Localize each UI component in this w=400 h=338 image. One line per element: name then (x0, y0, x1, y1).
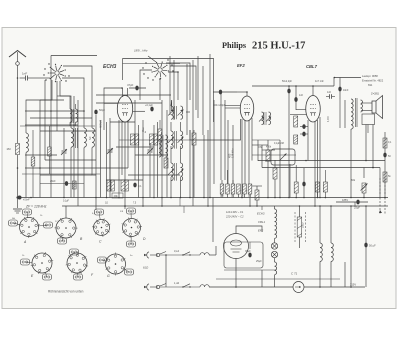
wire ECH3 grid cap to coils (104, 87, 123, 130)
switch blade lower (182, 284, 190, 288)
IF transformer T1 trimmer arrows (168, 110, 184, 116)
IF transformer T2 primary coil (171, 131, 173, 149)
dial lamp dashed leads (379, 198, 385, 216)
field coil (331, 206, 333, 287)
svg-text:30µF: 30µF (245, 250, 251, 253)
svg-text:215 H.U.-17: 215 H.U.-17 (252, 41, 305, 52)
wire feedback horizontals (258, 160, 385, 169)
wire oscillator mesh verticals (170, 56, 203, 135)
wire rectifier block bottom (216, 270, 340, 279)
wire transformer primary return (350, 133, 352, 198)
output transformer core (356, 98, 358, 127)
svg-text:50x2,2pF: 50x2,2pF (282, 80, 293, 83)
filter choke (320, 206, 322, 287)
resistor 0.1M mid left (31, 130, 35, 198)
svg-text:47pF: 47pF (127, 83, 134, 87)
wire upper coil pair links (57, 96, 76, 126)
junction dots buses (209, 197, 211, 199)
svg-text:Osz.: Osz. (142, 127, 145, 132)
phono socket symbol (293, 282, 304, 293)
resistor oscillator damping (164, 158, 168, 168)
switch S2 contact dots (145, 62, 146, 63)
svg-text:25µF: 25µF (354, 206, 360, 210)
resistor bias network R11 (220, 184, 224, 194)
socket C EF2 (92, 209, 110, 244)
tube EF2 envelope (240, 96, 254, 121)
junction dots ground bus extra (118, 197, 120, 199)
output transformer secondary (361, 100, 363, 112)
wire EF2 left feeds (225, 105, 241, 108)
resistor AVC 1M (258, 146, 270, 198)
svg-text:CBL7: CBL7 (306, 64, 318, 69)
junction dots tuning comb (95, 197, 97, 199)
wire EF2 grid link to IF T2 (190, 119, 241, 206)
wire CBL7 anode top (312, 85, 314, 95)
junction dots switch S2 (159, 78, 161, 80)
junction antenna ground (16, 196, 18, 198)
svg-text:1Ω: 1Ω (105, 203, 108, 205)
wire oscillator mesh horizontals (96, 64, 190, 181)
wire socket feeds (66, 206, 125, 218)
svg-text:Z=28Ω: Z=28Ω (371, 92, 379, 96)
IF transformer T1 primary coil (171, 106, 173, 119)
svg-text:1nF: 1nF (299, 94, 304, 97)
capacitor 25nF output (323, 170, 327, 198)
resistor 2500 ohm mains dropper (297, 206, 304, 248)
wire right vertical feeds (319, 206, 366, 288)
svg-text:2500: 2500 (302, 222, 305, 228)
resistor screen feed EF2 (192, 130, 196, 198)
tube ECH3 envelope (117, 96, 132, 123)
capacitor 1nF antenna coupling (20, 72, 35, 81)
resistor bias network R14 (237, 184, 241, 194)
capacitor 47pF oscillator coupling (127, 83, 146, 96)
trimmer capacitor oscillator padder (107, 148, 113, 198)
switch S1 contact dots (45, 79, 46, 80)
svg-text:470k: 470k (266, 147, 272, 149)
heater chain winding (275, 209, 277, 238)
capacitor decoupling blob mid (133, 183, 142, 188)
resistor output load 2.2M (316, 168, 320, 198)
wire detector bus top (252, 85, 334, 87)
wire EF2 column verticals (210, 54, 225, 198)
wire EF2 anode link (237, 91, 247, 93)
svg-text:0,1: 0,1 (138, 184, 142, 188)
svg-text:50 µF: 50 µF (369, 244, 376, 248)
tube CBL7 envelope (306, 96, 321, 123)
resistor 0.1M left block (73, 181, 77, 189)
svg-text:Lautspr. 9658: Lautspr. 9658 (362, 74, 378, 78)
IF transformer T2 core (175, 131, 177, 149)
wire EF2 anode to top (246, 91, 248, 96)
mains switch contact upper (156, 252, 166, 257)
resistor right column 1 (383, 138, 392, 148)
IF transformer T3 trimmer arrows (168, 169, 184, 175)
mains switch contact lower (156, 284, 166, 289)
resistor AVC 2 (273, 168, 277, 198)
tone control box (266, 143, 295, 165)
wire switch S2 contacts to oscillator coils (140, 56, 196, 110)
wire switch S1 lower feeds (26, 78, 84, 128)
wire heater chain tail (275, 206, 277, 287)
resistor cathode bias (121, 180, 128, 191)
coil antenna secondary pair upper (70, 109, 78, 123)
wire antenna lead down to ground bus (17, 77, 19, 197)
labels resistor row second line (222, 190, 247, 192)
resistor bias network R16 (248, 184, 252, 194)
svg-text:185V: 185V (342, 198, 348, 202)
svg-text:25µF: 25µF (256, 260, 262, 263)
svg-text:Ersatzteil Nr. 4822: Ersatzteil Nr. 4822 (362, 79, 384, 83)
IF transformer T2 secondary coil (181, 131, 183, 149)
wire IF transformer links (171, 100, 190, 198)
svg-text:1M: 1M (6, 147, 11, 151)
resistor AVC network (107, 180, 114, 191)
svg-text:691: 691 (368, 83, 373, 87)
barretter dashed outline (295, 212, 306, 242)
wire EF2 pin drops (228, 118, 252, 198)
coil L3 RF (84, 128, 86, 198)
svg-text:ZF = 128 kHz: ZF = 128 kHz (25, 205, 47, 209)
junction dots left block (50, 110, 52, 112)
ground symbol (13, 198, 22, 214)
svg-text:10nF: 10nF (343, 89, 349, 92)
speaker field coil box (357, 114, 375, 133)
svg-text:NC: NC (89, 136, 92, 140)
capacitor 25uF electrolytic blob (354, 200, 360, 210)
wire CBL7 pin drops (308, 117, 320, 206)
resistor padder 4 ohm (144, 130, 157, 145)
switch blade upper (182, 252, 190, 256)
wire switch S1 to RF coils top (51, 56, 97, 129)
resistor bias network R12 (226, 184, 230, 194)
svg-text:220-240V ~ C2: 220-240V ~ C2 (225, 215, 244, 219)
pilot lamp 1 (271, 243, 277, 249)
IF transformer T3 primary coil (171, 163, 173, 181)
rectifier block box (224, 242, 263, 268)
wire HT to output transformer (334, 77, 361, 128)
capacitor 4.5nF ground blob (18, 196, 31, 202)
trimmer capacitor antenna circuit (61, 128, 67, 198)
socket A ECH3 (9, 209, 53, 244)
wire transformer tails (351, 112, 366, 133)
socket D CBL7 (122, 208, 146, 247)
wire rectifier cathode to HT (235, 226, 262, 288)
svg-text:0,1µF 2M: 0,1µF 2M (274, 143, 284, 145)
coil oscillator tapped (159, 132, 168, 157)
detector diode transformer coils (259, 112, 271, 125)
capacitor tone corrector blob (338, 87, 349, 128)
wire ground bus (18, 197, 389, 199)
svg-text:50pF: 50pF (99, 108, 105, 112)
svg-text:110-130V ~ C1: 110-130V ~ C1 (226, 210, 244, 214)
svg-text:50k: 50k (351, 178, 356, 182)
resistor grid leak CBL7 (294, 165, 298, 198)
svg-text:EF2: EF2 (258, 229, 264, 233)
oscillator section box (123, 59, 214, 123)
trimmer capacitor RF (147, 143, 153, 198)
resistor bias network R15 (243, 184, 247, 194)
wire resistor row tails (222, 170, 250, 206)
wire bottom distribution (237, 270, 365, 287)
IF transformer T3 secondary coil (181, 163, 183, 181)
IF transformer T2 trimmer arrows (168, 137, 184, 143)
svg-text:4,5nF: 4,5nF (23, 198, 30, 202)
capacitor 10pF blob EF2 grid (213, 90, 237, 95)
resistor 30k IF decoupling (158, 120, 162, 155)
coil L4 RF (92, 128, 96, 175)
pilot lamp 2 (271, 251, 277, 257)
wire right column verticals (366, 125, 385, 198)
mains dropper coil lower (200, 285, 209, 287)
capacitor 50uF electrolytic blob (364, 243, 376, 248)
IF transformer T3 core (175, 163, 177, 181)
svg-text:0,1A: 0,1A (174, 250, 179, 253)
capacitor right column blob (383, 153, 391, 158)
mains plug upper (144, 252, 149, 258)
rotary band switch S2 (152, 62, 169, 79)
volume potentiometer 50k (351, 178, 368, 193)
mains dropper coil upper (200, 253, 209, 255)
wire mains upper run (150, 246, 216, 256)
svg-text:61Ω: 61Ω (143, 266, 149, 270)
svg-text:1,4A: 1,4A (174, 282, 179, 285)
svg-text:CBL1: CBL1 (258, 220, 265, 224)
wire tuning gang verticals (96, 100, 172, 206)
iron core antenna coils (76, 128, 78, 148)
wire left block extra horizontals (20, 126, 100, 184)
svg-text:+0,1µF: +0,1µF (145, 104, 153, 107)
svg-text:100-140pF: 100-140pF (213, 103, 226, 107)
resistor right column 2 (383, 172, 391, 182)
wire 185V line (336, 198, 368, 202)
capacitor blobs CBL7 input (290, 110, 308, 137)
rotary band switch S1 (48, 64, 66, 82)
output transformer primary (351, 99, 353, 129)
wire left block horizontals (25, 100, 128, 175)
boxed label 49k on ground bus (112, 193, 123, 198)
svg-text:4,7nF: 4,7nF (327, 115, 330, 122)
svg-text:1nF: 1nF (327, 91, 332, 94)
capacitor 50pF blob (94, 108, 105, 114)
capacitor 30uF electrolytic (245, 242, 252, 257)
resistor volume divider (255, 186, 259, 206)
svg-text:ECH3: ECH3 (103, 64, 117, 70)
socket G speaker plug (98, 253, 134, 279)
svg-text:Philips: Philips (222, 41, 246, 50)
socket F pilot (66, 249, 94, 280)
resistor CBL7 bias (294, 135, 298, 144)
coil L1 antenna (26, 104, 28, 198)
wire speaker dashed leads upper (380, 178, 385, 195)
loudspeaker (361, 96, 383, 119)
wire mains risers (180, 198, 213, 243)
wire tone box connections (265, 122, 310, 198)
capacitor 1nF CBL7 anode (326, 91, 335, 99)
socket E AZ1 (21, 252, 54, 280)
mains plug lower (144, 284, 149, 290)
svg-text:EF2: EF2 (237, 63, 245, 68)
IF transformer T1 core (175, 106, 177, 119)
wire left block verticals (40, 66, 78, 206)
wire power area risers (262, 164, 355, 287)
rectifier tube AZ1 (224, 234, 249, 259)
svg-text:4n7 1nF: 4n7 1nF (315, 80, 324, 83)
svg-text:C 71: C 71 (291, 272, 298, 276)
svg-text:29nF: 29nF (50, 180, 56, 183)
wire ECH3 pins down (104, 103, 145, 206)
svg-text:185/...kHz: 185/...kHz (134, 49, 148, 53)
svg-text:1nF: 1nF (22, 72, 27, 76)
svg-text:128 kHz: 128 kHz (231, 148, 235, 158)
capacitor 0.1uF blob ECH3 anode (145, 104, 154, 111)
socket B tuning condenser (55, 218, 84, 244)
wire mains lower run (150, 286, 237, 288)
resistor CBL7 grid stopper (294, 116, 298, 127)
resistor oscillator grid leak 50k (131, 134, 139, 145)
resistor 1M on antenna lead (6, 144, 19, 155)
wire antenna cap to band switch (34, 77, 50, 79)
svg-text:ECH3: ECH3 (257, 212, 265, 216)
antenna (9, 51, 26, 79)
resistor 50k left block (48, 126, 52, 174)
wire mains link vertical (165, 255, 167, 287)
resistor bias network R13 (231, 184, 235, 194)
wire pot connections (363, 168, 365, 198)
wire HT bus (62, 205, 388, 207)
wire AVC verticals (258, 100, 289, 198)
IF transformer T1 secondary coil (181, 106, 183, 119)
svg-text:G: G (107, 274, 110, 278)
coil L2 antenna (71, 128, 73, 198)
wire detector horizontals (252, 140, 296, 186)
svg-text:MG/LG: MG/LG (100, 120, 103, 128)
svg-text:Röhrenansicht von unten: Röhrenansicht von unten (48, 290, 84, 294)
capacitor 50pF detector blob (282, 80, 293, 100)
capacitor 29nF blob (50, 180, 68, 186)
capacitor coupling blob 2 (294, 86, 303, 110)
svg-text:0,1µF: 0,1µF (63, 201, 70, 203)
